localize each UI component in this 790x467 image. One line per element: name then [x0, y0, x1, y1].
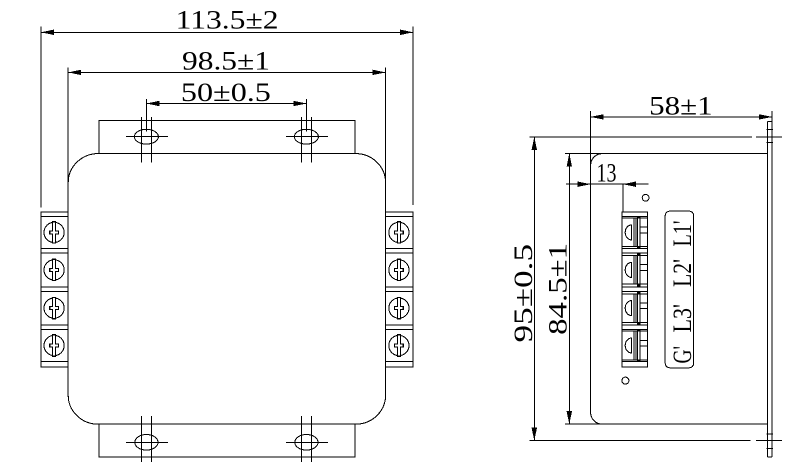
top hole centre line [529, 136, 782, 138]
case screw hole top [642, 194, 649, 201]
mounting plate top hole (edge-on) [766, 129, 773, 142]
dimension 50±0.5 line and arrows [146, 103, 306, 105]
side view terminal strip outline [622, 212, 648, 367]
dimension 13 extension line right [622, 184, 624, 211]
right terminal screw 4 [389, 335, 409, 356]
left terminal block outline [41, 212, 68, 367]
top flange slot hole right [294, 129, 318, 144]
dimension 50±0.5 extension line left [145, 99, 147, 131]
left terminal block divider lines [41, 216, 68, 361]
dimension 113.5±2 line and arrows [41, 31, 413, 33]
top flange slot hole left [134, 129, 158, 144]
mounting plate bottom hole (edge-on) [766, 434, 773, 449]
left terminal screw 1 [44, 222, 64, 243]
svg-text:13: 13 [597, 158, 617, 188]
svg-text:50±0.5: 50±0.5 [181, 77, 271, 107]
side view terminal 3 [622, 292, 648, 325]
bottom mounting flange [99, 424, 355, 457]
bottom flange slot hole right [295, 435, 318, 451]
dimension 84.5±1 extension line top [565, 153, 621, 155]
dimension 113.5±2 extension line left [40, 27, 42, 208]
dimension 98.5±1 line and arrows [68, 71, 385, 73]
svg-text:G': G' [667, 346, 697, 364]
bottom hole centre line [529, 440, 782, 442]
dimension 84.5±1 extension line bottom [565, 423, 621, 425]
dimension 13 line [566, 183, 649, 185]
side view terminal 2 [622, 254, 648, 287]
dimension 95±0.5 line and arrows [533, 137, 535, 441]
side view terminal 4 [622, 329, 648, 362]
svg-text:L1': L1' [667, 221, 697, 247]
svg-text:113.5±2: 113.5±2 [176, 5, 279, 35]
svg-text:L3': L3' [667, 304, 697, 333]
dimension 58±1 extension line left (above body) [590, 111, 592, 165]
right terminal screw 3 [389, 297, 409, 318]
side view terminal strip divider lines [622, 216, 648, 361]
side view mounting plate (edge-on) [768, 122, 772, 457]
right terminal screw 2 [389, 259, 409, 280]
left terminal screw 2 [44, 259, 64, 280]
dimension 84.5±1 line and arrows [568, 154, 570, 425]
left terminal screw 3 [44, 297, 64, 318]
case screw hole bottom [622, 377, 629, 384]
dimension 58±1 extension line right [771, 111, 773, 121]
svg-text:98.5±1: 98.5±1 [182, 46, 270, 76]
right terminal block divider lines [386, 216, 413, 361]
top mounting flange [99, 121, 355, 154]
dimension 98.5±1 extension line left [67, 67, 69, 184]
right terminal block outline [386, 212, 413, 367]
dimension 98.5±1 extension line right [385, 67, 387, 184]
bottom flange slot hole left [135, 435, 158, 451]
svg-text:L2': L2' [667, 259, 697, 287]
svg-text:84.5±1: 84.5±1 [542, 243, 572, 335]
svg-text:95±0.5: 95±0.5 [508, 244, 538, 343]
dimension 58±1 line and arrows [591, 116, 772, 118]
side view terminal 1 [622, 216, 648, 249]
svg-text:58±1: 58±1 [649, 90, 713, 120]
right terminal screw 1 [389, 222, 409, 243]
side view body outline [591, 154, 768, 425]
dimension 113.5±2 extension line right [412, 27, 414, 206]
left terminal screw 4 [44, 335, 64, 356]
dimension 50±0.5 extension line right [305, 99, 307, 131]
terminal label plate [665, 211, 694, 368]
front view body outline [68, 154, 385, 425]
dimension 13 arrows (outside) [578, 182, 591, 187]
